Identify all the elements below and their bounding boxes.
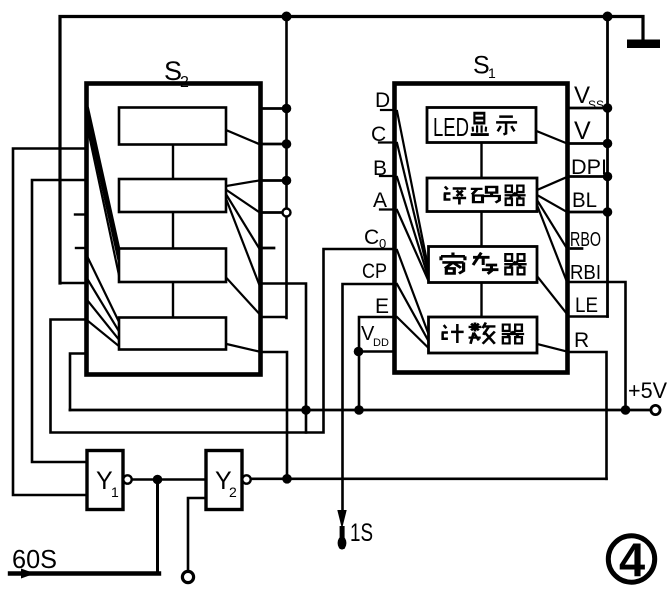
wire S2 right stub y352 down to Y2 output line (vertical B) bbox=[260, 352, 287, 479]
wire S2 left pin y353 down to +5V rail bbox=[70, 354, 86, 411]
svg-text:2: 2 bbox=[229, 484, 237, 500]
wire S1 right stub BL bbox=[567, 211, 608, 214]
wire LE pin line bbox=[567, 315, 608, 318]
wire RBI pin line to +5V bbox=[567, 282, 626, 410]
svg-text:D: D bbox=[375, 89, 390, 112]
wire 60S junction branch bbox=[10, 480, 159, 574]
component gate Y2 bubble bbox=[242, 475, 250, 483]
component gate Y1 bubble bbox=[123, 475, 131, 483]
component box counter bbox=[429, 317, 538, 353]
svg-text:+5V: +5V bbox=[628, 378, 667, 403]
component S2 box bbox=[87, 84, 261, 375]
wire E pin line and VDD box bbox=[359, 317, 394, 410]
label pin ticks S1 left bbox=[379, 110, 394, 210]
node S2 right short stub y248 bbox=[260, 247, 274, 250]
wire S2 right stub y108 bbox=[260, 107, 287, 110]
component S2 inner box 2 bbox=[119, 179, 226, 212]
node junction A y108 bbox=[282, 104, 292, 114]
wire S1 inner fan left lower bbox=[397, 250, 429, 348]
wire Y2 lower input terminal bbox=[188, 498, 206, 571]
node junction rail x625 bbox=[621, 405, 631, 415]
wire R pin line to Y2 output return bbox=[567, 352, 607, 479]
svg-text:4: 4 bbox=[619, 533, 645, 586]
wire S1 right stub VSS bbox=[567, 107, 608, 110]
wire top rail bbox=[60, 17, 643, 284]
wire S1 right stub V bbox=[567, 142, 608, 145]
node junction Y2 out / vertical B bbox=[282, 474, 292, 484]
svg-text:60S: 60S bbox=[12, 544, 57, 574]
wire S1 inner connectors bbox=[480, 144, 482, 318]
node junction bus BL bbox=[603, 207, 613, 217]
svg-text:0: 0 bbox=[379, 236, 386, 251]
svg-text:RBO: RBO bbox=[570, 229, 601, 251]
node junction VDD box corner bbox=[354, 347, 364, 357]
wire Y1 output to Y2 input bbox=[131, 478, 206, 481]
node junction rail x359 VDD bbox=[354, 405, 364, 415]
node junction bus V bbox=[603, 139, 613, 149]
svg-text:B: B bbox=[373, 157, 387, 180]
wire bus right from top rail to LE box bbox=[606, 17, 609, 317]
wire S2 right stub y212 bbox=[260, 211, 287, 214]
svg-text:BL: BL bbox=[572, 189, 597, 212]
node open circle A y212 bbox=[283, 209, 291, 217]
node junction bus DPI bbox=[603, 172, 613, 182]
label counter CJK bbox=[442, 324, 464, 343]
wire S2 inner connectors bbox=[172, 145, 174, 318]
node junction top rail x286 bbox=[282, 12, 292, 22]
wire S2 left pin y148 to Y1 lower input bbox=[13, 149, 87, 496]
label register CJK bbox=[441, 253, 465, 274]
svg-text:C: C bbox=[364, 226, 379, 249]
svg-text:A: A bbox=[373, 189, 387, 212]
ground bbox=[627, 40, 660, 49]
wire C0 pin line handled above ; CP pin line with 1S input bbox=[343, 284, 395, 512]
label LED display CJK bbox=[471, 113, 489, 134]
wire S2 left pin y180 to Y1 upper input bbox=[32, 180, 87, 462]
wire S1 right stub DPI bbox=[567, 175, 608, 178]
component S1 box bbox=[395, 84, 568, 373]
svg-text:E: E bbox=[375, 295, 389, 318]
wire S1 inner fan right bbox=[537, 131, 568, 352]
svg-text:DPI: DPI bbox=[571, 156, 607, 179]
svg-text:DD: DD bbox=[373, 337, 389, 349]
svg-text:1: 1 bbox=[111, 484, 119, 500]
svg-text:1: 1 bbox=[488, 65, 496, 81]
component box decoder bbox=[427, 178, 537, 212]
node junction top rail x608 bbox=[603, 12, 613, 22]
node RBO short stub bbox=[571, 247, 582, 250]
svg-text:SS: SS bbox=[588, 98, 604, 112]
node junction rail x306 bbox=[301, 405, 311, 415]
node S2 left tick y248 bbox=[76, 247, 86, 249]
component box LED display bbox=[427, 108, 536, 143]
svg-text:V: V bbox=[574, 117, 591, 145]
component box register bbox=[429, 247, 538, 283]
wire top rail branch into S2 left edge bbox=[60, 282, 86, 285]
svg-text:2: 2 bbox=[180, 74, 189, 91]
node junction Y1 out / 60S bbox=[153, 475, 163, 485]
component gate Y2 bbox=[206, 451, 242, 510]
node junction bus VSS bbox=[603, 103, 613, 113]
wire S2 right stub y180 bbox=[260, 179, 287, 182]
node terminal +5V bbox=[651, 405, 660, 414]
node S2 left tick y214 bbox=[75, 213, 86, 215]
label circled 4 bbox=[608, 533, 654, 586]
svg-text:1S: 1S bbox=[350, 519, 373, 547]
wire vertical A from top rail to S2 stub y317 bbox=[260, 17, 287, 319]
wire S2 left pin y319 down to bus y432 bbox=[51, 249, 395, 433]
svg-text:C: C bbox=[371, 123, 386, 146]
component S2 inner box 3 bbox=[119, 249, 226, 283]
svg-text:R: R bbox=[574, 329, 589, 352]
wire S2 right stub y283 to +5V rail bbox=[260, 284, 306, 433]
wire S2 inner fan upper bbox=[88, 108, 120, 280]
wire Y2 output / R return bbox=[250, 477, 607, 480]
wire S2 inner fan right bbox=[226, 130, 259, 352]
wire S1 inner fan left upper bbox=[397, 111, 429, 282]
wire +5V rail bbox=[70, 409, 651, 412]
node 60S input arrow bbox=[21, 569, 35, 579]
node 1S input arrow bbox=[337, 510, 346, 529]
wire S2 inner fan lower bbox=[88, 258, 120, 347]
component S2 inner box 4 bbox=[119, 318, 226, 350]
wire S2 right stub y144 bbox=[260, 143, 287, 146]
label decoder CJK bbox=[444, 187, 466, 205]
component gate Y1 bbox=[87, 451, 123, 510]
component S2 inner box 1 bbox=[119, 108, 226, 145]
svg-text:LE: LE bbox=[575, 294, 598, 317]
node junction A y144 bbox=[282, 139, 292, 149]
svg-text:LED: LED bbox=[433, 112, 469, 142]
node junction A y180 bbox=[282, 176, 292, 186]
svg-text:CP: CP bbox=[362, 260, 387, 283]
svg-text:RBI: RBI bbox=[570, 262, 601, 284]
node terminal under Y2 bbox=[182, 571, 193, 582]
